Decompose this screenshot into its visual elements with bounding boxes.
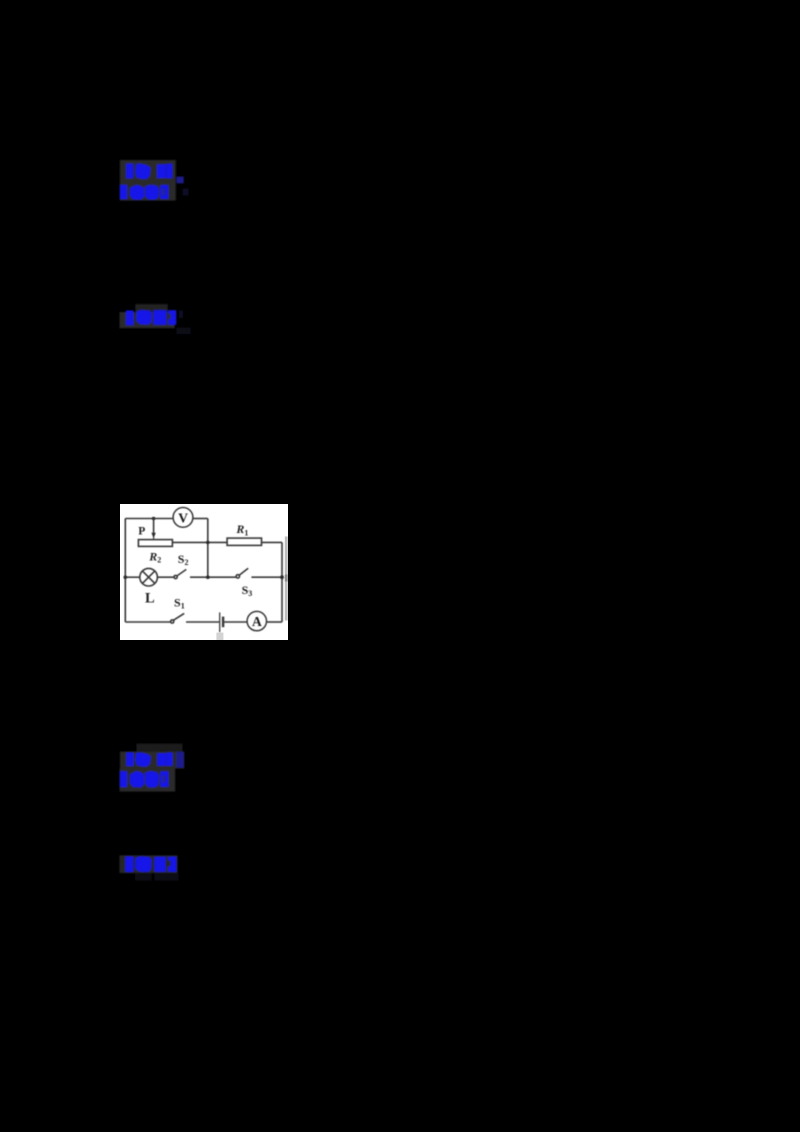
switch S1: [171, 620, 174, 623]
node A : tap on top wire: [152, 517, 156, 521]
wire: vertical from V right down to middle node: [207, 519, 209, 578]
slider P arrow: [153, 519, 155, 536]
gray highlight behind block 1: [120, 160, 176, 201]
gray highlight line 2: [120, 768, 176, 791]
wire: S1 to battery: [186, 621, 219, 623]
wire: left vertical: [124, 519, 126, 623]
node D : middle/vertical junction: [206, 575, 210, 579]
gray highlight: [120, 312, 175, 328]
blue header line 1 : 【考点】: [126, 752, 172, 767]
svg-text:P: P: [138, 526, 145, 538]
circuit diagram image (white panel): [120, 504, 288, 640]
lamp L: [140, 568, 158, 586]
wire: middle left segment: [125, 576, 140, 578]
switch S2: [174, 575, 177, 578]
answer block 1 : header lines: [114, 155, 192, 207]
wire: battery to ammeter: [224, 621, 247, 623]
voltmeter U1: [173, 508, 193, 528]
blue header line 2 : 【分析】: [120, 771, 169, 787]
wire: S2 to node D: [190, 576, 237, 578]
wire: ammeter to right corner: [266, 621, 282, 623]
dark navy square after line 1: [177, 177, 184, 184]
answer block 1b : solution header: [112, 298, 198, 342]
faint smudges right of header: [179, 311, 183, 318]
gray scan artifact below battery: [216, 633, 223, 640]
svg-text:L: L: [145, 591, 155, 607]
answer block 3 : solution header: [114, 850, 192, 890]
ammeter U2: [247, 611, 266, 630]
gray highlight: [119, 855, 177, 873]
node C : left wire / middle wire: [124, 575, 128, 579]
answer block 2 : header lines: [114, 738, 194, 798]
blue header 【解答】: [126, 310, 176, 325]
svg-text:A: A: [252, 614, 262, 629]
resistor R2 (rheostat body): [138, 540, 172, 547]
resistor R1: [227, 538, 261, 545]
node B : junction vertical/R2-R1 wire: [206, 541, 210, 545]
gray scan artifact strip right edge: [285, 537, 288, 621]
faint smudge remnants below: [135, 874, 178, 881]
node E : right wire / middle wire: [280, 575, 284, 579]
wire: bottom left segment: [125, 621, 170, 623]
dark navy square after line 1: [176, 752, 183, 768]
wire: right vertical: [281, 542, 283, 622]
wire: top from left corner to voltmeter: [125, 518, 173, 520]
svg-text:V: V: [178, 511, 188, 526]
wire: R1 right to right corner: [261, 541, 282, 543]
wire: lamp to switch S2: [157, 576, 174, 578]
battery BT1: [219, 612, 221, 632]
blue header line 1 : 【考点】: [126, 163, 172, 179]
gray highlight line 1: [120, 752, 184, 769]
switch S3: [236, 575, 239, 578]
wire: R2 right to R1 left: [172, 541, 227, 543]
gray scan artifact dark segment: [285, 575, 288, 582]
blue header 【解答】: [125, 856, 176, 872]
faint smudge right of line 2: [183, 189, 189, 196]
white background of scanned figure: [120, 504, 288, 640]
wire: S3 to right wire: [251, 576, 282, 578]
faint dark strip above: [135, 304, 167, 312]
blue header line 2 : 【分析】: [120, 185, 169, 200]
wire: voltmeter to top-right corner: [193, 518, 208, 520]
faint dark strip above line 1: [136, 744, 182, 752]
